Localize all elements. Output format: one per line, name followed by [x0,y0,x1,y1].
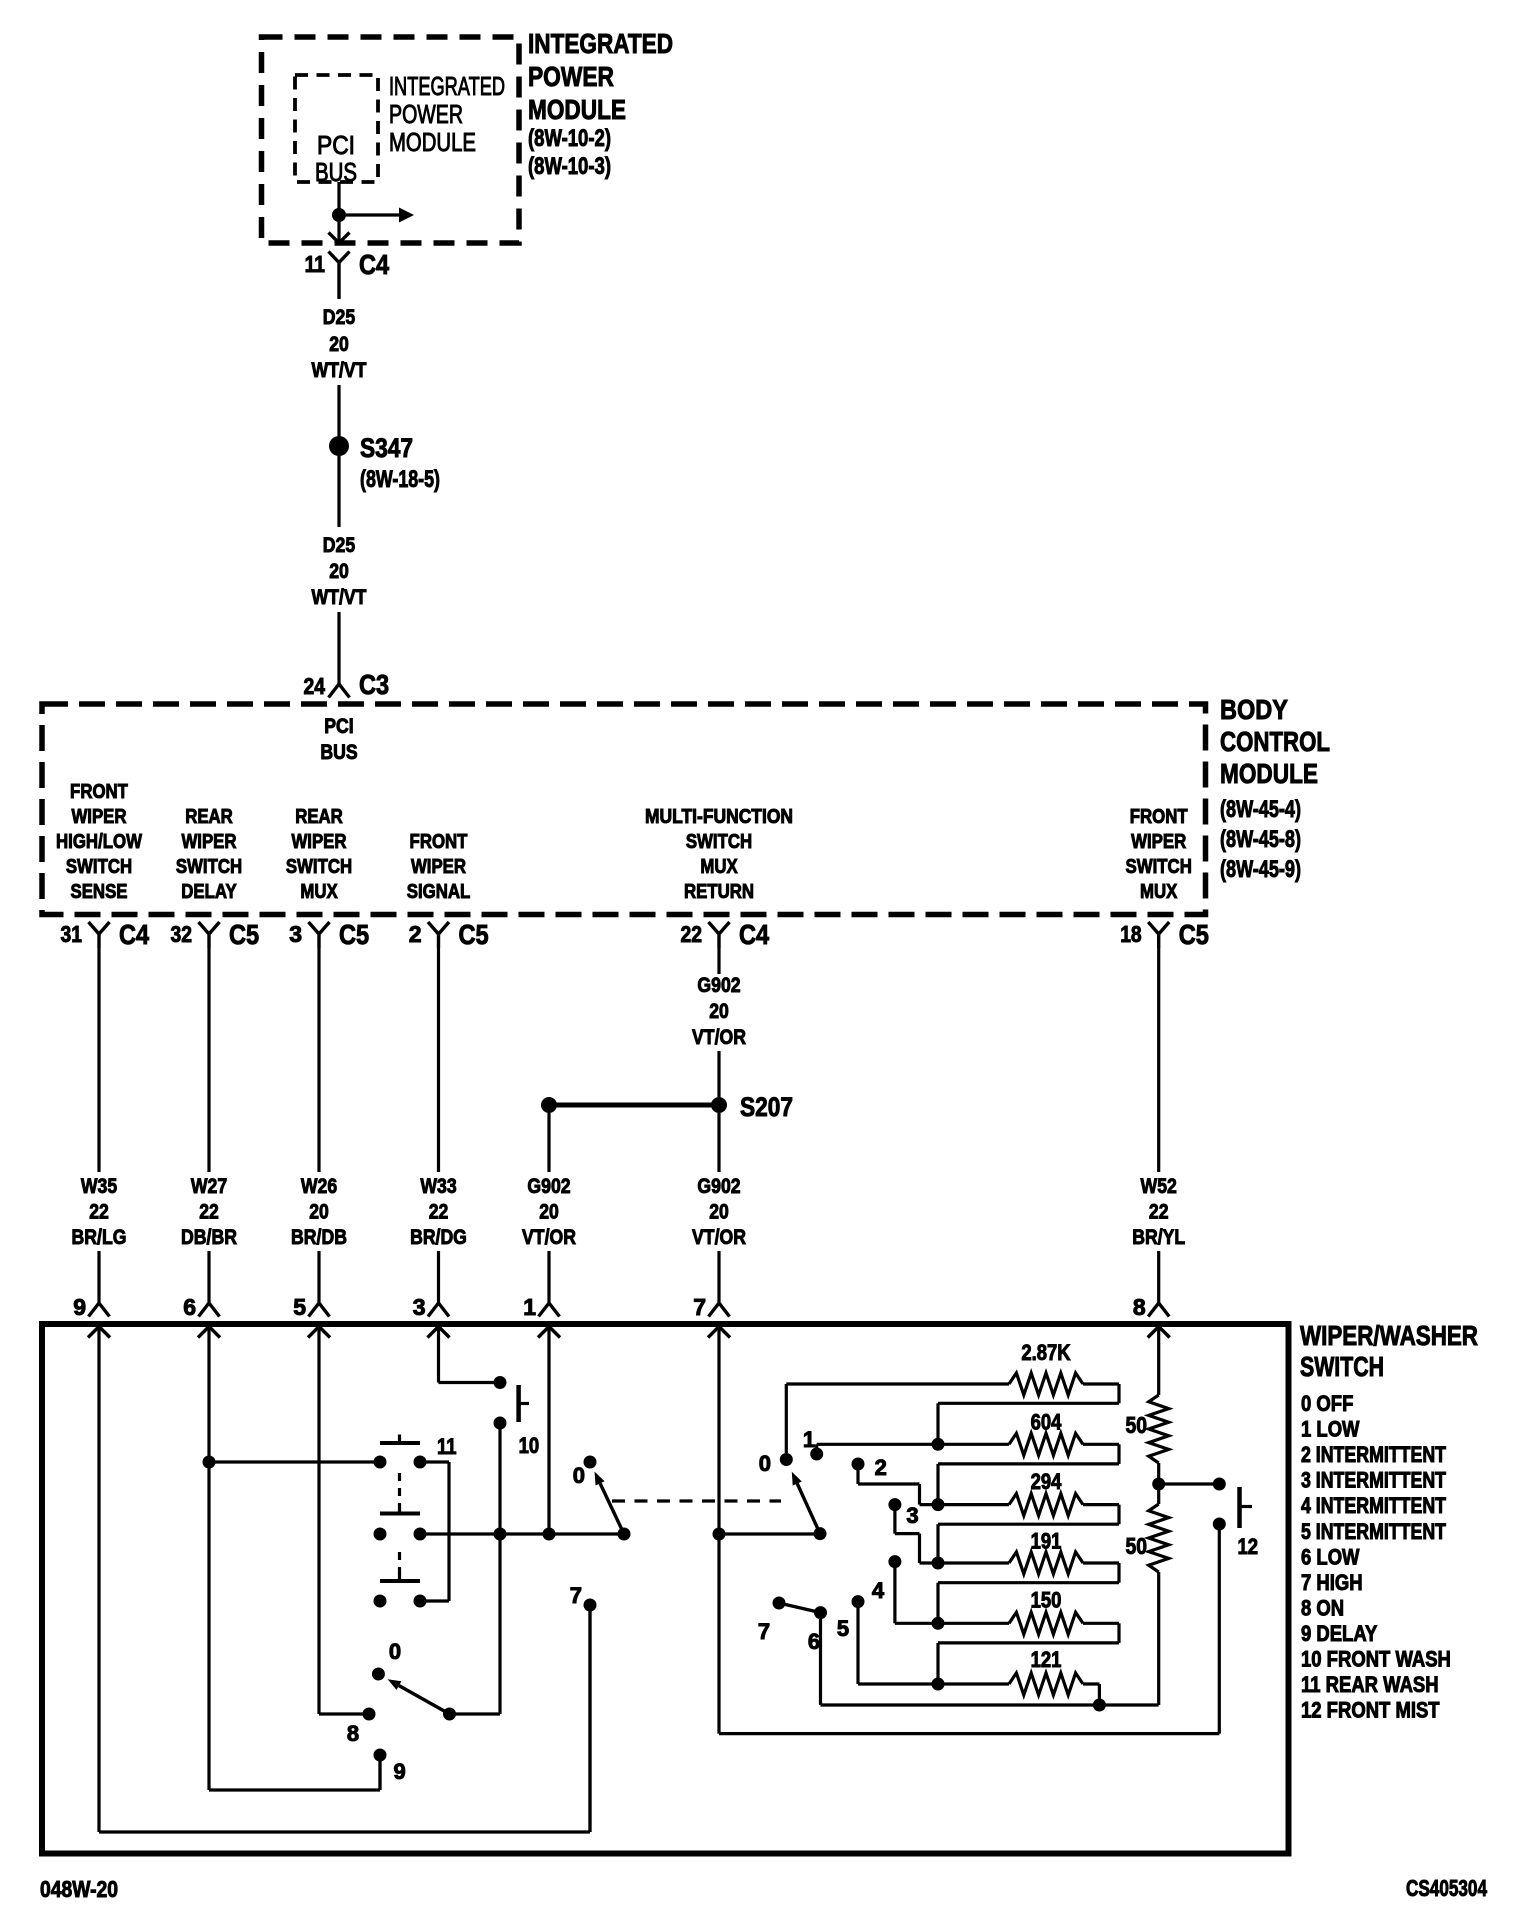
svg-text:20: 20 [709,1000,729,1023]
svg-text:2: 2 [875,1455,887,1480]
svg-text:3 INTERMITTENT: 3 INTERMITTENT [1301,1468,1446,1493]
svg-text:11 REAR WASH: 11 REAR WASH [1301,1672,1439,1697]
svg-text:BR/LG: BR/LG [72,1226,127,1249]
svg-text:S207: S207 [740,1092,793,1122]
svg-text:24: 24 [304,673,326,699]
svg-text:BODY: BODY [1220,694,1288,725]
svg-text:22: 22 [199,1201,219,1224]
svg-text:3: 3 [906,1503,918,1528]
svg-text:0: 0 [759,1451,771,1476]
svg-text:C5: C5 [1179,919,1209,950]
svg-text:D25: D25 [323,534,356,557]
svg-text:(8W-45-8): (8W-45-8) [1220,826,1301,853]
svg-text:C5: C5 [229,919,259,950]
svg-text:20: 20 [329,560,349,583]
svg-text:DB/BR: DB/BR [181,1226,237,1249]
svg-text:FRONT: FRONT [1130,806,1188,828]
svg-text:3: 3 [289,921,302,947]
svg-text:S347: S347 [360,433,413,463]
svg-text:(8W-10-2): (8W-10-2) [528,125,611,152]
svg-text:294: 294 [1031,1469,1062,1494]
svg-text:7: 7 [693,1294,706,1320]
svg-text:4 INTERMITTENT: 4 INTERMITTENT [1301,1493,1446,1518]
svg-text:C5: C5 [459,919,489,950]
svg-text:BUS: BUS [315,157,357,187]
svg-text:VT/OR: VT/OR [692,1026,746,1049]
svg-text:POWER: POWER [389,99,463,129]
svg-text:SWITCH: SWITCH [66,856,132,878]
svg-text:121: 121 [1031,1647,1062,1672]
svg-text:12: 12 [1238,1534,1259,1559]
svg-text:WIPER: WIPER [411,856,467,878]
svg-text:HIGH/LOW: HIGH/LOW [56,831,142,853]
svg-text:REAR: REAR [295,806,343,828]
svg-text:11: 11 [305,251,326,277]
svg-text:DELAY: DELAY [181,881,237,903]
svg-text:604: 604 [1031,1410,1062,1435]
svg-text:10: 10 [519,1433,540,1458]
svg-text:1: 1 [803,1427,815,1452]
svg-text:4: 4 [872,1578,885,1603]
svg-text:BUS: BUS [320,741,357,764]
svg-text:W33: W33 [420,1175,456,1198]
svg-text:W35: W35 [81,1175,118,1198]
svg-text:C4: C4 [119,919,149,950]
svg-text:FRONT: FRONT [70,781,128,803]
svg-text:WIPER: WIPER [181,831,237,853]
svg-text:VT/OR: VT/OR [692,1226,746,1249]
svg-text:WIPER: WIPER [71,806,127,828]
svg-text:W26: W26 [301,1175,337,1198]
svg-text:048W-20: 048W-20 [40,1876,118,1902]
svg-text:MUX: MUX [300,881,338,903]
svg-text:WIPER/WASHER: WIPER/WASHER [1300,1320,1478,1351]
svg-text:(8W-45-9): (8W-45-9) [1220,856,1301,883]
svg-text:VT/OR: VT/OR [522,1226,576,1249]
svg-text:50: 50 [1126,1533,1148,1559]
svg-text:1 LOW: 1 LOW [1301,1417,1360,1442]
svg-text:22: 22 [429,1201,449,1224]
svg-text:INTEGRATED: INTEGRATED [389,71,505,101]
svg-text:22: 22 [89,1201,109,1224]
svg-text:WT/VT: WT/VT [312,359,367,382]
svg-text:1: 1 [523,1294,536,1320]
svg-text:SIGNAL: SIGNAL [407,881,471,903]
svg-text:WIPER: WIPER [291,831,347,853]
svg-text:MULTI-FUNCTION: MULTI-FUNCTION [645,806,793,828]
svg-text:7: 7 [570,1583,582,1608]
svg-text:PCI: PCI [317,130,355,160]
svg-text:MUX: MUX [1140,881,1178,903]
svg-text:20: 20 [709,1201,729,1224]
svg-text:W52: W52 [1141,1175,1177,1198]
svg-text:REAR: REAR [185,806,233,828]
svg-text:31: 31 [61,921,83,947]
svg-text:2: 2 [409,921,422,947]
svg-text:PCI: PCI [324,715,353,738]
svg-text:G902: G902 [697,1175,740,1198]
svg-text:3: 3 [413,1294,426,1320]
svg-text:CONTROL: CONTROL [1220,726,1330,757]
svg-text:9: 9 [393,1759,405,1784]
svg-text:(8W-45-4): (8W-45-4) [1220,796,1301,823]
svg-text:12 FRONT MIST: 12 FRONT MIST [1301,1698,1440,1723]
svg-text:CS405304: CS405304 [1406,1875,1487,1901]
svg-text:BR/DB: BR/DB [291,1226,347,1249]
svg-text:10 FRONT WASH: 10 FRONT WASH [1301,1647,1451,1672]
svg-text:50: 50 [1126,1412,1148,1438]
svg-text:191: 191 [1031,1529,1062,1554]
svg-text:8: 8 [1133,1294,1146,1320]
svg-text:RETURN: RETURN [684,881,754,903]
svg-text:D25: D25 [323,306,356,329]
svg-text:SWITCH: SWITCH [176,856,242,878]
svg-text:5: 5 [837,1616,849,1641]
svg-text:8 ON: 8 ON [1301,1595,1344,1620]
svg-text:G902: G902 [527,1175,570,1198]
svg-text:W27: W27 [191,1175,227,1198]
svg-text:150: 150 [1031,1588,1062,1613]
svg-text:11: 11 [437,1434,457,1459]
svg-text:SWITCH: SWITCH [1300,1351,1384,1382]
svg-text:32: 32 [171,921,193,947]
svg-text:POWER: POWER [528,61,614,92]
svg-text:C3: C3 [359,669,389,700]
svg-text:MODULE: MODULE [528,94,626,125]
svg-text:6: 6 [183,1294,196,1320]
svg-text:SWITCH: SWITCH [1126,856,1192,878]
svg-text:22: 22 [681,921,703,947]
svg-text:6 LOW: 6 LOW [1301,1544,1360,1569]
svg-text:C4: C4 [739,919,769,950]
svg-text:22: 22 [1149,1201,1169,1224]
svg-text:0: 0 [573,1463,585,1488]
svg-text:FRONT: FRONT [410,831,468,853]
svg-text:C5: C5 [339,919,369,950]
svg-text:C4: C4 [359,249,389,280]
svg-text:20: 20 [539,1201,559,1224]
svg-text:18: 18 [1120,921,1142,947]
svg-text:(8W-18-5): (8W-18-5) [360,466,440,493]
svg-text:20: 20 [329,333,349,356]
svg-text:WT/VT: WT/VT [312,586,367,609]
svg-text:20: 20 [309,1201,329,1224]
svg-text:5: 5 [293,1294,306,1320]
svg-text:MUX: MUX [700,856,738,878]
svg-text:MODULE: MODULE [1220,758,1318,789]
svg-text:BR/YL: BR/YL [1132,1226,1185,1249]
svg-text:6: 6 [808,1629,820,1654]
svg-text:(8W-10-3): (8W-10-3) [528,153,611,180]
svg-text:G902: G902 [697,974,740,997]
svg-text:8: 8 [347,1721,359,1746]
svg-text:5 INTERMITTENT: 5 INTERMITTENT [1301,1519,1446,1544]
svg-text:7 HIGH: 7 HIGH [1301,1570,1363,1595]
svg-text:SWITCH: SWITCH [286,856,352,878]
svg-text:2 INTERMITTENT: 2 INTERMITTENT [1301,1442,1446,1467]
svg-text:0: 0 [389,1639,401,1664]
svg-text:BR/DG: BR/DG [410,1226,467,1249]
svg-text:MODULE: MODULE [389,127,476,157]
svg-text:2.87K: 2.87K [1021,1340,1070,1365]
svg-text:INTEGRATED: INTEGRATED [528,28,673,59]
svg-text:0 OFF: 0 OFF [1301,1391,1353,1416]
svg-text:9: 9 [73,1294,86,1320]
svg-text:WIPER: WIPER [1131,831,1187,853]
svg-text:SWITCH: SWITCH [686,831,752,853]
svg-text:7: 7 [758,1619,770,1644]
svg-text:9 DELAY: 9 DELAY [1301,1621,1378,1646]
svg-text:SENSE: SENSE [71,881,128,903]
